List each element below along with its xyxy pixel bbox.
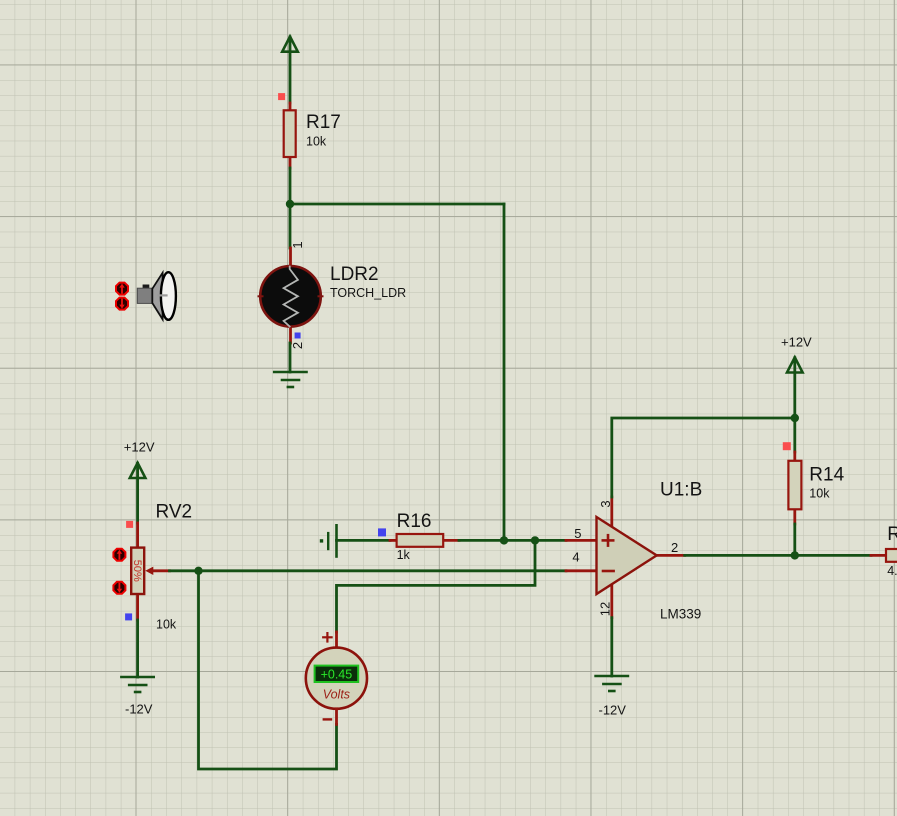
junction — [500, 536, 508, 544]
svg-text:+12V: +12V — [781, 335, 812, 350]
actuator button down — [116, 298, 128, 310]
logic state indicator (blue) — [125, 613, 132, 620]
ground — [121, 677, 153, 692]
actuator button up — [116, 283, 128, 295]
junction — [194, 567, 202, 575]
input terminal — [320, 525, 337, 556]
svg-text:LM339: LM339 — [660, 607, 701, 622]
wire — [289, 37, 292, 103]
resistor R16 — [390, 534, 459, 547]
svg-text:TORCH_LDR: TORCH_LDR — [330, 286, 406, 300]
op-amp U1:B — [566, 497, 685, 618]
potentiometer RV2 — [131, 523, 169, 620]
wire — [170, 569, 199, 572]
logic state indicator (red) — [783, 442, 791, 450]
svg-text:-12V: -12V — [599, 703, 627, 718]
svg-text:R14: R14 — [809, 465, 844, 486]
logic state indicator (red) — [278, 93, 285, 100]
svg-text:LDR2: LDR2 — [330, 264, 379, 285]
power +12V arrow top — [282, 37, 298, 52]
svg-text:R1: R1 — [887, 524, 897, 545]
logic state indicator (blue) — [295, 333, 301, 339]
wire — [199, 571, 337, 769]
junction — [791, 551, 799, 559]
svg-text:10k: 10k — [156, 618, 177, 632]
svg-text:1k: 1k — [397, 548, 411, 562]
junction — [286, 200, 294, 208]
wire — [793, 358, 796, 452]
ground — [274, 372, 306, 387]
svg-text:2: 2 — [290, 342, 305, 349]
svg-text:U1:B: U1:B — [660, 480, 702, 501]
svg-text:1: 1 — [290, 241, 305, 248]
svg-text:Volts: Volts — [323, 688, 350, 702]
wire — [136, 463, 139, 523]
wire — [289, 204, 292, 248]
resistor R17 — [284, 103, 296, 168]
wire — [685, 554, 871, 557]
junction — [531, 536, 539, 544]
wire — [290, 203, 504, 206]
svg-text:+12V: +12V — [124, 440, 155, 455]
svg-text:4.7k: 4.7k — [887, 564, 897, 578]
power +12V arrow RV2 — [130, 463, 146, 478]
power +12V arrow R14 — [787, 357, 803, 372]
wire — [459, 539, 566, 542]
svg-text:10k: 10k — [809, 487, 830, 501]
svg-text:5: 5 — [574, 526, 581, 541]
svg-text:4: 4 — [572, 550, 579, 565]
actuator button down — [113, 582, 125, 594]
wire — [289, 343, 292, 372]
wire — [136, 620, 139, 677]
svg-text:3: 3 — [598, 500, 613, 507]
logic state indicator (red) — [126, 521, 133, 528]
speaker icon — [137, 272, 176, 320]
logic state indicator (blue) — [378, 528, 386, 536]
wire — [337, 539, 391, 542]
svg-text:R17: R17 — [306, 112, 341, 133]
junction — [791, 414, 799, 422]
svg-text:50%: 50% — [131, 560, 143, 582]
actuator button up — [113, 549, 125, 561]
wire — [610, 618, 613, 676]
ground — [596, 676, 628, 691]
wire — [503, 204, 506, 540]
wire — [793, 524, 796, 555]
resistor R14 — [788, 452, 801, 524]
wire — [289, 168, 292, 204]
svg-text:RV2: RV2 — [156, 502, 193, 523]
resistor R15 — [871, 549, 897, 562]
voltmeter — [306, 632, 367, 724]
wire — [612, 418, 795, 497]
wire — [199, 569, 567, 572]
svg-text:+0.45: +0.45 — [321, 667, 353, 681]
svg-text:R16: R16 — [397, 511, 432, 532]
svg-text:12: 12 — [598, 602, 613, 616]
svg-text:10k: 10k — [306, 135, 327, 149]
svg-text:2: 2 — [671, 540, 678, 555]
svg-text:-12V: -12V — [125, 702, 153, 717]
wire — [337, 540, 536, 632]
LDR LDR2 — [259, 248, 323, 343]
